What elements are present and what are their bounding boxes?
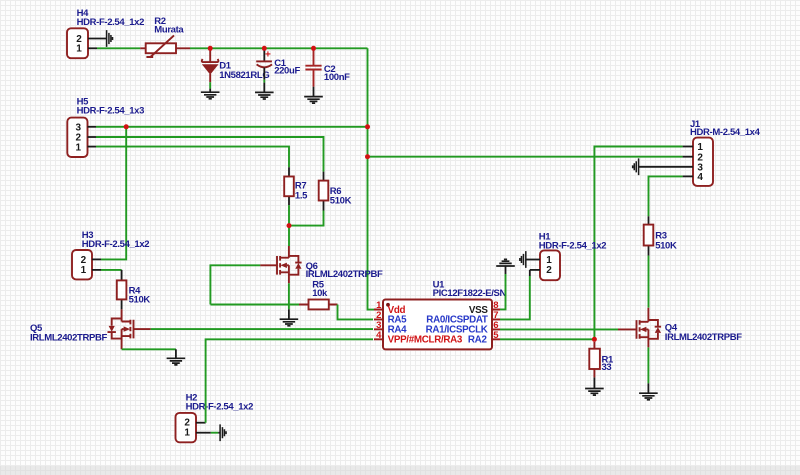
wire H5.3 to rail	[96, 126, 368, 128]
svg-text:IRLML2402TRPBF: IRLML2402TRPBF	[306, 269, 383, 280]
junction node H5.3 column	[124, 124, 129, 129]
wire vertical rail to U1 Vdd	[368, 48, 376, 309]
wire R5 left	[210, 304, 299, 306]
svg-text:HDR-F-2.54_1x2: HDR-F-2.54_1x2	[77, 17, 145, 28]
pin J1.3 lead to ground	[639, 166, 693, 168]
junction node RA2/R1/J1.1	[592, 337, 597, 342]
resistor R6 510K	[319, 172, 352, 211]
ground at H1 pin 1	[520, 251, 526, 268]
svg-text:33: 33	[602, 362, 612, 373]
resistor R2 (Murata thermistor)	[140, 16, 190, 57]
connector H3	[72, 230, 149, 279]
svg-text:4: 4	[697, 172, 703, 183]
pin H4.1 lead	[88, 47, 97, 49]
wire C1 to ground	[263, 80, 265, 83]
svg-text:RA2: RA2	[468, 335, 488, 346]
ground below C2	[304, 87, 323, 104]
wire U1 RA2 to junction	[500, 338, 594, 340]
svg-text:1N5821RLG: 1N5821RLG	[219, 70, 269, 81]
connector H1	[539, 232, 607, 281]
wire H5.3 down to H3.2	[101, 127, 126, 260]
resistor R7 1.5	[284, 167, 308, 205]
junction node rail/H5.3	[365, 124, 370, 129]
diode D1 1N5821RLG	[202, 48, 270, 82]
connector H4	[67, 8, 144, 58]
pin H1.2 lead	[530, 269, 540, 271]
pin H3.2 lead	[92, 258, 101, 260]
junction node D1/top rail	[208, 46, 213, 51]
svg-text:PIC12F1822-E/SN: PIC12F1822-E/SN	[433, 288, 507, 299]
ground below R1	[585, 377, 604, 395]
svg-text:510K: 510K	[129, 295, 151, 306]
ground below D1	[201, 89, 220, 99]
svg-text:1: 1	[76, 44, 82, 55]
wire H2.2 to U1 VPP	[206, 339, 373, 422]
ground at J1 pin 3	[633, 158, 639, 175]
resistor R1 33	[589, 342, 614, 378]
resistor R5 10k	[299, 279, 338, 309]
junction node C2/top rail	[311, 46, 316, 51]
wire D1 to ground	[209, 82, 211, 88]
svg-text:510K: 510K	[655, 241, 677, 252]
svg-text:4: 4	[376, 330, 382, 341]
svg-text:2: 2	[546, 265, 552, 276]
wire Q5 source to ground	[122, 348, 176, 350]
svg-text:VPP/#MCLR/RA3: VPP/#MCLR/RA3	[388, 335, 463, 346]
pin H2.1 lead	[196, 432, 211, 434]
wire R3 to Q4 drain	[648, 256, 650, 308]
svg-text:100nF: 100nF	[324, 72, 350, 83]
wire R2 to corner, top rail	[190, 47, 368, 49]
wire R7 to junction	[288, 205, 290, 225]
svg-text:10k: 10k	[312, 288, 328, 299]
wire Q6 gate loop	[210, 265, 260, 304]
svg-text:HDR-F-2.54_1x2: HDR-F-2.54_1x2	[82, 239, 150, 250]
svg-text:1: 1	[81, 265, 87, 276]
junction node rail/J1.2	[365, 154, 370, 159]
resistor R3 510K	[644, 216, 677, 255]
wire U1 RA0 to H1.2	[500, 276, 530, 319]
wire J1.4 to R3	[649, 176, 683, 216]
ground at Q4 source	[639, 383, 658, 400]
wire H2.1 to ground	[211, 432, 219, 434]
svg-text:IRLML2402TRPBF: IRLML2402TRPBF	[665, 332, 742, 343]
transistor Q4 IRLML2402TRPBF	[618, 308, 742, 348]
pin H5.3 lead	[88, 126, 97, 128]
svg-text:510K: 510K	[330, 196, 352, 207]
pin J1.1 lead	[683, 146, 693, 148]
wire H5.2 to R6	[96, 137, 324, 172]
connector J1	[690, 119, 761, 186]
svg-text:IRLML2402TRPBF: IRLML2402TRPBF	[30, 333, 107, 344]
pin J1.4 lead	[683, 175, 693, 177]
ground at Q6 source	[280, 309, 299, 326]
wire U1 RA1 to Q4 gate	[500, 328, 618, 330]
svg-text:HDR-F-2.54_1x3: HDR-F-2.54_1x3	[77, 105, 145, 116]
ground at H2 pin 1	[218, 424, 226, 441]
wire H3.1 to R4	[101, 269, 122, 271]
pin H2.2 lead	[196, 422, 206, 424]
wire J1.1 down to RA2 node	[594, 147, 682, 340]
ground below C1	[255, 83, 274, 99]
svg-text:HDR-F-2.54_1x2: HDR-F-2.54_1x2	[186, 401, 254, 412]
svg-text:220uF: 220uF	[274, 66, 300, 77]
capacitor C1 220uF	[256, 48, 300, 79]
junction node R7/R6	[287, 223, 292, 228]
wire R6 to junction	[289, 211, 324, 226]
wire Q5 gate to U1 RA4	[151, 328, 373, 330]
wire Q4 source to ground	[647, 347, 649, 383]
svg-text:Murata: Murata	[154, 25, 184, 36]
svg-text:+: +	[265, 49, 271, 60]
ground at H4 pin 2	[107, 30, 113, 47]
transistor Q6 IRLML2402TRPBF	[260, 246, 383, 283]
svg-text:HDR-M-2.54_1x4: HDR-M-2.54_1x4	[690, 127, 761, 138]
IC U1 PIC12F1822-E/SN	[374, 280, 507, 350]
wire H4.1 to R2	[97, 47, 140, 49]
svg-text:1: 1	[76, 142, 82, 153]
svg-text:5: 5	[493, 330, 499, 341]
transistor Q5 IRLML2402TRPBF	[30, 309, 151, 349]
pin H1.1 lead to ground	[526, 259, 540, 261]
pin H3.1 lead	[92, 269, 101, 271]
ground above U1 VSS	[496, 259, 515, 274]
svg-text:1: 1	[184, 428, 190, 439]
resistor R4 510K	[117, 270, 151, 310]
svg-text:1.5: 1.5	[295, 191, 308, 202]
pin H4.2 lead	[88, 38, 107, 40]
junction node C1/top rail	[262, 46, 267, 51]
pin H5.2 lead	[88, 136, 97, 138]
connector H5	[67, 97, 144, 157]
pin J1.2 lead	[683, 156, 693, 158]
wire H5.1 to R7	[96, 147, 289, 168]
wire U1 VSS to ground	[500, 274, 506, 309]
ground at Q5 source	[167, 349, 186, 365]
wire junction to Q6 drain	[288, 226, 290, 246]
wire rail to J1 pin 2	[368, 156, 683, 158]
wire Q6 source to ground	[288, 283, 290, 309]
pin H5.1 lead	[88, 146, 97, 148]
capacitor C2 100nF	[305, 48, 350, 86]
wire R5 to U1 RA5	[338, 305, 374, 320]
wire H1.2 corner	[529, 270, 531, 276]
connector H2	[176, 393, 254, 443]
